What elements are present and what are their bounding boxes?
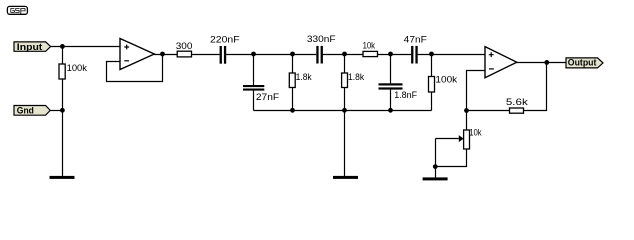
svg-text:27nF: 27nF: [256, 92, 280, 102]
svg-text:Gnd: Gnd: [17, 106, 34, 116]
svg-text:300: 300: [176, 41, 193, 51]
svg-text:1.8nF: 1.8nF: [394, 90, 417, 100]
svg-text:Input: Input: [17, 42, 43, 52]
svg-text:47nF: 47nF: [404, 35, 428, 45]
svg-text:10k: 10k: [363, 41, 376, 51]
svg-text:330nF: 330nF: [307, 34, 336, 44]
svg-text:1.8k: 1.8k: [348, 72, 365, 82]
svg-text:10k: 10k: [469, 127, 482, 137]
svg-text:100k: 100k: [435, 74, 457, 84]
svg-text:1.8k: 1.8k: [296, 72, 313, 82]
svg-text:220nF: 220nF: [210, 34, 240, 44]
svg-text:5.6k: 5.6k: [506, 97, 529, 107]
svg-text:100k: 100k: [67, 63, 88, 73]
svg-text:Output: Output: [568, 58, 597, 68]
